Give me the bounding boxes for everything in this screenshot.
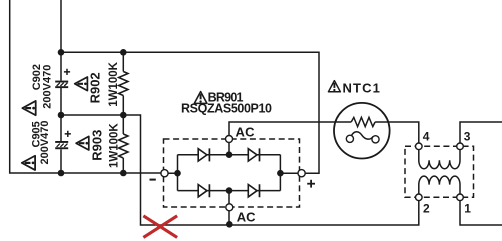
svg-text:200V470: 200V470 (41, 65, 53, 109)
svg-text:200V470: 200V470 (39, 120, 51, 164)
svg-text:2: 2 (423, 202, 430, 216)
svg-text:NTC1: NTC1 (343, 80, 380, 95)
svg-text:AC: AC (237, 209, 256, 224)
svg-text:AC: AC (236, 125, 256, 140)
svg-text:1: 1 (464, 202, 471, 216)
svg-text:4: 4 (423, 130, 430, 144)
svg-text:1W100K: 1W100K (108, 61, 120, 106)
svg-text:R903: R903 (89, 130, 104, 161)
svg-text:3: 3 (464, 130, 471, 144)
svg-text:1W100K: 1W100K (109, 123, 121, 168)
svg-text:R902: R902 (88, 72, 103, 103)
